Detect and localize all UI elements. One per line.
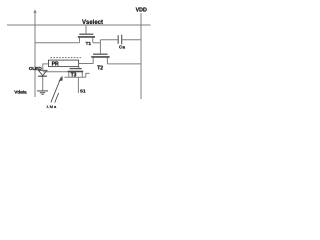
svg-text:OLED: OLED	[29, 66, 43, 72]
svg-text:Vselect: Vselect	[82, 20, 103, 26]
svg-text:T1: T1	[86, 41, 92, 47]
svg-text:S1: S1	[80, 89, 86, 94]
svg-text:Ca: Ca	[119, 45, 125, 50]
svg-text:Vdata: Vdata	[14, 90, 27, 95]
svg-text:T2: T2	[97, 66, 103, 72]
svg-text:VDD: VDD	[136, 8, 147, 14]
svg-text:PR: PR	[52, 61, 59, 67]
svg-text:λ M a: λ M a	[47, 104, 58, 109]
svg-text:T3: T3	[71, 72, 77, 78]
